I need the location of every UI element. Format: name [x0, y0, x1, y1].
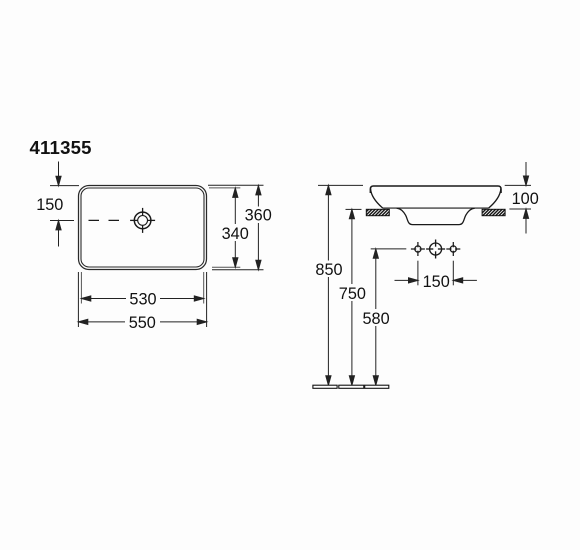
counter top line [383, 207, 489, 209]
tap dim 150 right extension line [452, 261, 454, 286]
dim 580 top extension line [371, 248, 407, 250]
tap hole small right [446, 242, 460, 256]
dim 550 horizontal line with arrows [78, 319, 206, 324]
bottom extension line left outer (550) [77, 272, 79, 327]
tap dim 150 left arrow (points right) [395, 278, 418, 283]
countertop hatch block right [482, 209, 505, 215]
floor bar 1 [313, 385, 337, 388]
dim 100 lower arrow (points up) [523, 209, 528, 234]
svg-text:100: 100 [512, 190, 539, 208]
dim 750 vertical line with arrows [349, 209, 354, 385]
basin underside bowl [397, 208, 475, 225]
outer rim rounded rectangle (550x360) [79, 186, 207, 270]
svg-text:150: 150 [423, 273, 450, 291]
svg-text:580: 580 [363, 310, 390, 328]
dim 100 bottom extension line [509, 208, 531, 210]
bottom extension line right outer (550) [206, 272, 208, 327]
dim 340 vertical line with arrows [233, 188, 238, 267]
tap dim 150 left extension line [417, 261, 419, 286]
inner rim rounded rectangle (530x340) [81, 188, 204, 267]
dim 530 horizontal line with arrows [81, 296, 203, 301]
drain cross ticks [130, 208, 155, 233]
floor bar 2 [339, 385, 364, 388]
svg-text:150: 150 [36, 196, 63, 214]
dim 150 top tick / extension line [50, 185, 79, 187]
extension line bottom outer (for 360) [212, 269, 264, 271]
extension line top outer (for 360) [208, 184, 264, 186]
svg-text:411355: 411355 [30, 137, 92, 158]
extension line bottom inner (for 340) [212, 266, 240, 268]
dim 150 bottom tick [50, 220, 74, 222]
dim 100 upper arrow (points down) [523, 162, 528, 185]
bottom extension line left inner (530) [80, 272, 82, 304]
extension line top inner (for 340) [209, 187, 240, 189]
svg-text:750: 750 [339, 285, 366, 303]
dim 360 vertical line with arrows [256, 186, 261, 270]
countertop hatch block left [366, 209, 389, 215]
svg-text:850: 850 [315, 261, 342, 279]
basin rim top edge and sloping side walls [370, 186, 501, 193]
dashed centerline to drain [89, 219, 126, 221]
basin left wall curve [371, 189, 383, 208]
bottom extension line right inner (530) [203, 272, 205, 304]
floor bar 3 [365, 385, 389, 388]
svg-text:530: 530 [129, 291, 156, 309]
basin right wall curve [489, 189, 501, 208]
dim 150 upper arrow (points down) [56, 162, 61, 186]
dim 850 vertical line with arrows [326, 185, 331, 385]
svg-text:360: 360 [245, 207, 272, 225]
dim 100 top extension line [505, 184, 531, 186]
dim 150 lower arrow (points up) [56, 221, 61, 247]
tap hole large centre [426, 240, 445, 259]
dim 850 top extension line [318, 184, 363, 186]
dim 580 vertical line with arrows [373, 249, 378, 385]
svg-text:550: 550 [129, 314, 156, 332]
drain outer circle [134, 212, 151, 229]
tap dim 150 right arrow (points left) [453, 278, 477, 283]
dim 750 top extension line [346, 208, 362, 210]
drain inner circle [138, 216, 148, 226]
tap hole small left [411, 242, 425, 256]
svg-text:340: 340 [222, 225, 249, 243]
